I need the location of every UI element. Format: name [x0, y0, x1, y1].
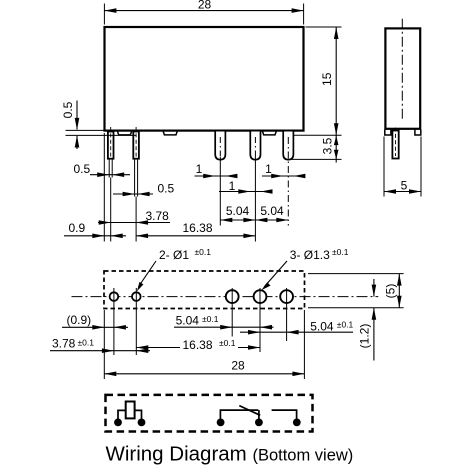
dim 3.78 arrows: [99, 220, 111, 225]
pin 2 center extension line: [135, 197, 137, 242]
contact NO dot: [293, 419, 301, 427]
bottom view centerline: [72, 296, 379, 298]
dim 0.5 pin1 line: [90, 174, 130, 176]
dim 5 line: [384, 191, 421, 193]
coil pin 2 body: [133, 132, 139, 159]
ext line hole4: [259, 288, 261, 352]
dim 5.04 tol left line: [174, 326, 274, 328]
dim 1 pin4 line: [219, 191, 273, 193]
dim 16.38 tol arrows: [136, 345, 148, 350]
ext line bottom-view bottom-right: [308, 307, 404, 309]
standoff bump C: [263, 131, 277, 135]
side view pin centerline: [395, 128, 397, 157]
dim 28 bottom line: [104, 373, 304, 375]
dim 0.5 standoff lower arrow: [76, 136, 78, 149]
contact NC wire: [258, 410, 260, 420]
dim 0.9 arrows: [92, 234, 104, 239]
dim 5 arrows: [384, 189, 396, 194]
dim 1 pin3 line: [195, 175, 238, 177]
svg-text:5.04: 5.04: [310, 319, 334, 333]
contact pin 3 body: [215, 132, 225, 160]
coil terminal dot 2: [138, 419, 146, 427]
contact common dot: [217, 419, 225, 427]
pin 5 center extension line: [287, 137, 289, 226]
svg-text:28: 28: [198, 0, 212, 11]
hole 2: [132, 292, 141, 301]
pin 2 width extension line left: [134, 159, 136, 197]
body left edge extension line: [103, 133, 105, 242]
front view: dim 28 arrow left: [104, 8, 116, 13]
svg-text:1: 1: [265, 162, 272, 176]
ext line bottom-view top-right: [308, 273, 404, 275]
hole 1: [110, 292, 119, 301]
dim 1 pin3 arrows: [203, 174, 215, 179]
svg-text:±0.1: ±0.1: [202, 314, 219, 324]
hole 3: [226, 290, 239, 303]
dim 5 extension line right: [420, 137, 422, 197]
svg-text:0.5: 0.5: [61, 101, 75, 118]
side view left foot: [385, 130, 391, 136]
svg-text:3.78: 3.78: [146, 209, 170, 223]
svg-text:0.5: 0.5: [74, 162, 91, 176]
dim 1 pin5 arrows: [271, 174, 283, 179]
svg-text:(1.2): (1.2): [357, 324, 371, 349]
dim 3.78 line: [98, 222, 170, 224]
svg-text:3.5: 3.5: [320, 137, 334, 154]
dim 1 pin4 arrows: [238, 189, 250, 194]
dim 16.38 arrows: [136, 234, 148, 239]
dim 15 extension line bottom: [293, 134, 342, 136]
coil wire left: [118, 410, 126, 420]
svg-text:0.9: 0.9: [69, 221, 86, 235]
dim 5.04 arrows: [220, 218, 232, 223]
contact NC dot: [255, 419, 263, 427]
schematic dashed box: [106, 395, 313, 432]
side view centerline: [401, 19, 403, 122]
dim (5) line: [398, 274, 400, 308]
dim 0.5 standoff upper line+arrow: [76, 101, 78, 130]
dim 5.04 tol right line: [240, 331, 353, 333]
dim 1 pin5 line: [262, 175, 304, 177]
ext line hole1: [113, 288, 115, 355]
dim 5.04 line: [220, 219, 288, 221]
ext line rect-right: [303, 310, 305, 379]
dim 0.5 pin2 line: [113, 193, 153, 195]
dim 0.9 line: [64, 235, 126, 237]
dim 3.78 tol line: [50, 350, 150, 352]
coil terminal dot 1: [114, 419, 122, 427]
dim (5) arrows: [397, 274, 402, 286]
ext line rect-left: [103, 310, 105, 379]
dim 0.5 standoff extension line top: [66, 129, 105, 131]
label 3-dia1.3 leader: [265, 261, 288, 287]
relay body outline (side view): [385, 28, 420, 128]
svg-text:±0.1: ±0.1: [195, 247, 212, 257]
ext line hole5: [286, 288, 288, 341]
dim 3.5 arrows: [334, 136, 339, 146]
side view right foot: [415, 130, 421, 136]
pin 1 width extension line left: [108, 159, 110, 178]
coil wire right: [135, 410, 142, 420]
pin 2 width extension line right: [137, 159, 139, 197]
side view pin: [392, 131, 398, 159]
dim 5.04 tol left arrows: [220, 325, 232, 330]
dim 15 extension line top: [306, 26, 342, 28]
front view: dim 28 extension line left: [103, 4, 105, 25]
dim 16.38 tol line: [136, 347, 180, 349]
svg-text:(5): (5): [384, 284, 398, 299]
svg-text:±0.1: ±0.1: [332, 247, 349, 257]
label 2-dia1 leader: [139, 261, 156, 287]
dim 0.5 standoff extension line bottom: [66, 134, 137, 136]
hole 5: [280, 290, 293, 303]
dim 15 line: [335, 27, 337, 135]
dim (0.9) arrows: [92, 325, 104, 330]
svg-text:1: 1: [196, 162, 203, 176]
dim 5.04 tol right arrows: [248, 330, 260, 335]
contact pin 5 body: [283, 132, 293, 160]
dim 5 extension line left: [383, 137, 385, 197]
dim (1.2) upper arrow: [373, 279, 375, 297]
svg-text:5.04: 5.04: [260, 204, 284, 218]
svg-text:5.04: 5.04: [226, 204, 250, 218]
contact NO wire: [272, 410, 297, 420]
standoff bump B: [163, 131, 177, 135]
dim 3.5 extension line: [285, 158, 342, 160]
contact pin 4 body: [250, 132, 260, 160]
dim 0.5 pin2 arrows: [123, 192, 135, 197]
coil pin 1 body: [108, 132, 114, 159]
pin 3 center extension line: [219, 137, 221, 157]
dim 16.38 line: [136, 235, 255, 237]
dim (0.9) line: [62, 326, 128, 328]
svg-text:Wiring Diagram (Bottom view): Wiring Diagram (Bottom view): [106, 442, 354, 465]
pin 1 center extension line: [110, 178, 112, 242]
dim 3.5 line: [335, 135, 337, 162]
dim (1.2) lower arrow: [373, 308, 375, 361]
coil pin 2 centerline: [135, 127, 137, 157]
ext line hole2: [135, 288, 137, 355]
svg-text:5.04: 5.04: [176, 314, 200, 328]
pin 4 center extension line: [254, 137, 256, 155]
contact blade: [239, 406, 260, 416]
dim 3.78 tol arrows: [102, 348, 114, 353]
relay body outline (front view): [105, 27, 304, 131]
front view: dim 28 arrow right: [292, 8, 304, 13]
svg-text:±0.1: ±0.1: [337, 320, 354, 330]
svg-text:±0.1: ±0.1: [219, 338, 236, 348]
svg-text:3.78: 3.78: [52, 336, 76, 350]
svg-text:3- Ø1.3: 3- Ø1.3: [290, 248, 330, 262]
dim 15 arrows: [334, 27, 339, 39]
svg-text:2- Ø1: 2- Ø1: [159, 248, 189, 262]
svg-text:15: 15: [320, 72, 334, 86]
svg-text:5: 5: [401, 178, 408, 192]
svg-text:±0.1: ±0.1: [78, 338, 95, 348]
coil pin 1 centerline: [110, 127, 112, 157]
hole 4: [254, 290, 267, 303]
dim 28 bottom arrows: [104, 372, 116, 377]
svg-text:1: 1: [229, 179, 236, 193]
svg-text:16.38: 16.38: [183, 338, 213, 352]
svg-text:28: 28: [231, 358, 245, 372]
standoff bump A: [118, 131, 132, 135]
dim 0.5 pin1 arrows: [97, 172, 109, 177]
ext line hole3: [231, 288, 233, 337]
coil box: [126, 402, 135, 419]
contact common wire: [220, 410, 258, 420]
front view: dim 28 extension line right: [303, 4, 305, 25]
svg-text:16.38: 16.38: [182, 221, 212, 235]
svg-text:(0.9): (0.9): [67, 313, 92, 327]
bottom view dashed outline: [104, 271, 305, 309]
pin 1 width extension line right: [111, 159, 113, 178]
front view: dim 28 line: [104, 10, 303, 12]
svg-text:0.5: 0.5: [158, 181, 175, 195]
